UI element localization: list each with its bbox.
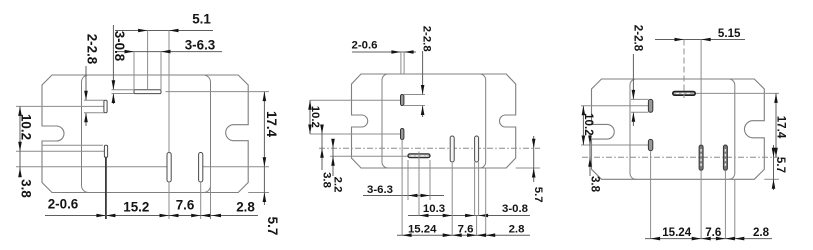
relay 3 coil pin 2 centerline [581,144,649,146]
dimension 10.2 (relay 3) [582,106,595,145]
relay 2 blade pin A [450,136,454,162]
svg-text:10.2: 10.2 [19,114,34,140]
relay 2 cover line left [382,74,388,168]
relay 3 top pin row centerline [695,92,779,94]
relay 3 blade pin B [723,145,727,170]
relay 2 coil pin 2 centerline [310,133,401,135]
dimension 10.3 and 3-0.8 line (relay 2) [408,161,530,217]
svg-text:2.8: 2.8 [236,200,255,215]
svg-text:7.6: 7.6 [705,226,722,239]
relay 1 coil pin 1 [104,100,107,112]
relay 1 centerline row top pin [166,91,270,93]
relay 1 cover line left [82,75,89,193]
svg-text:15.24: 15.24 [662,226,692,239]
relay 1 blade 3 extension to bottom chain [200,182,202,219]
relay 1 body outline with mounting slots [42,75,248,193]
relay 1 top blade pin (6.3mm QC terminal, horizontal) [134,90,161,94]
relay 1 bottom edge extension [248,192,269,194]
relay 3 coil pin 2 [648,139,652,150]
dimension 17.4 (relay 1, top row to blade row) [263,92,279,167]
svg-text:7.6: 7.6 [458,223,474,235]
dimension 3-6.3 (relay 2, oval pin width) [363,160,444,200]
dimension 5.7 (relay 2, blade row to bottom) [532,136,544,203]
svg-text:2-0.6: 2-0.6 [48,197,79,212]
dimension 10.2 (relay 1, coil pin row spacing) [18,106,34,151]
dimension 2-2.8 (relay 1, coil pin length) [84,34,104,126]
svg-text:5.7: 5.7 [532,187,544,203]
relay 1 coil pin 2 centerline [16,150,104,152]
svg-text:2-0.6: 2-0.6 [352,40,378,52]
relay 2 cover line right [480,74,486,168]
relay 2 coil pin 2 [401,129,404,140]
dimension 17.4 (relay 3, top row to blade row) [774,93,787,157]
dimension 2-2.8 (relay 3, coil pin length) [631,25,648,126]
relay 3 body outline with mounting slots [592,79,765,179]
svg-text:7.6: 7.6 [176,198,195,213]
svg-text:10.3: 10.3 [423,203,445,215]
svg-text:10.2: 10.2 [309,106,321,128]
dimension 5.7 (relay 3, blade row to bottom) [772,145,788,190]
relay 2 body outline with mounting slots [352,74,516,168]
dimension chain 15.24 / 7.6 / 2.8 (relay 3 bottom) [645,226,772,240]
relay 3 coil pin 1 [648,99,652,112]
relay 3 cover line left [630,79,636,179]
svg-text:15.24: 15.24 [408,223,437,235]
relay 3 top oval pin (horizontal 6.3mm) [673,92,695,96]
relay 3 bottom edge extension [764,178,779,180]
relay 3 cover line right [729,79,735,179]
relay 3 blade row centerline (dash-dot) [582,156,779,158]
svg-text:17.4: 17.4 [774,116,787,139]
relay 2 coil pin 1 [401,95,404,106]
dimension 3.8 (relay 2) [320,125,332,188]
svg-text:3-6.3: 3-6.3 [367,184,393,196]
svg-text:5.1: 5.1 [192,12,211,27]
relay 1 cover edge extension to bottom chain [210,167,212,219]
relay 3 coil pin 1 centerline [581,105,648,107]
dimension 10.2 (relay 2) [308,100,321,134]
dimension 2-0.6 (relay 2, coil pin thickness) [352,40,416,74]
svg-text:17.4: 17.4 [264,111,279,138]
relay 1 blade pin 3 (vertical) [199,153,203,183]
svg-text:2-2.8: 2-2.8 [420,26,432,52]
relay 1 coil pin extension to bottom chain [105,157,107,219]
svg-text:15.2: 15.2 [123,200,149,215]
relay 1 coil pin 1 centerline [16,105,104,107]
dimension 3.8 (relay 1, coil row to blade row) [18,151,34,198]
relay 1 blade pin 2 (vertical) [167,153,171,183]
dimension 3-6.3 (relay 1, blade width) [115,37,222,90]
relay 2 coil pin 1 centerline [310,99,401,101]
svg-text:3.8: 3.8 [589,176,602,193]
relay 2 blade pin B [475,136,479,162]
svg-text:3.8: 3.8 [19,179,34,198]
dimension 2-2.8 (relay 2, coil pin length) [404,26,433,117]
relay 1 blade 2 extension to bottom chain [168,182,170,219]
relay 3 blade pin A [699,145,703,170]
relay 2 oval pin row centerline [330,155,408,157]
relay 2 blade row centerline (dash-dot) [319,147,540,149]
dimension chain 2-0.6 / 15.2 / 7.6 / 2.8 (relay 1 bottom) [45,197,258,218]
relay 3 chain extension lines [651,151,735,239]
dimension 5.1 (relay 1, top pin center to middle blade) [115,12,213,153]
svg-text:3-0.8: 3-0.8 [112,31,127,62]
relay 2 oval pin (horizontal 6.3mm) [408,152,430,162]
svg-text:2-2.8: 2-2.8 [85,34,100,65]
svg-text:2.8: 2.8 [753,226,770,239]
relay 1 coil pin 2 [104,145,107,157]
relay 1 coil pin 2 top reference line [42,144,103,146]
svg-text:10.2: 10.2 [582,113,595,136]
svg-text:5.15: 5.15 [718,27,741,40]
dimension 5.15 (relay 3, oval pin center to blade column) [655,27,745,145]
relay 1 blade pin row centerline [16,166,269,168]
svg-text:3-0.8: 3-0.8 [502,203,528,215]
svg-text:2.2: 2.2 [332,177,344,193]
relay 2 bottom edge extension [516,167,540,169]
svg-text:2.8: 2.8 [509,223,525,235]
dimension 2.2 (relay 2) [331,139,343,193]
relay 1 cover line right [204,75,211,193]
dimension 3.8 (relay 3) [588,135,601,193]
dimension 3-0.8 (relay 1, blade thickness) [112,25,135,104]
dimension 5.7 (relay 1, blade row to bottom edge) [263,167,280,236]
dimension chain 15.24 / 7.6 / 2.8 (relay 2 bottom) [397,223,530,237]
svg-text:5.7: 5.7 [774,157,787,173]
svg-text:2-2.8: 2-2.8 [631,25,644,52]
svg-text:3.8: 3.8 [321,172,333,188]
relay 2 chain extension lines [402,140,486,236]
svg-text:3-6.3: 3-6.3 [185,37,216,52]
svg-text:5.7: 5.7 [265,217,280,236]
